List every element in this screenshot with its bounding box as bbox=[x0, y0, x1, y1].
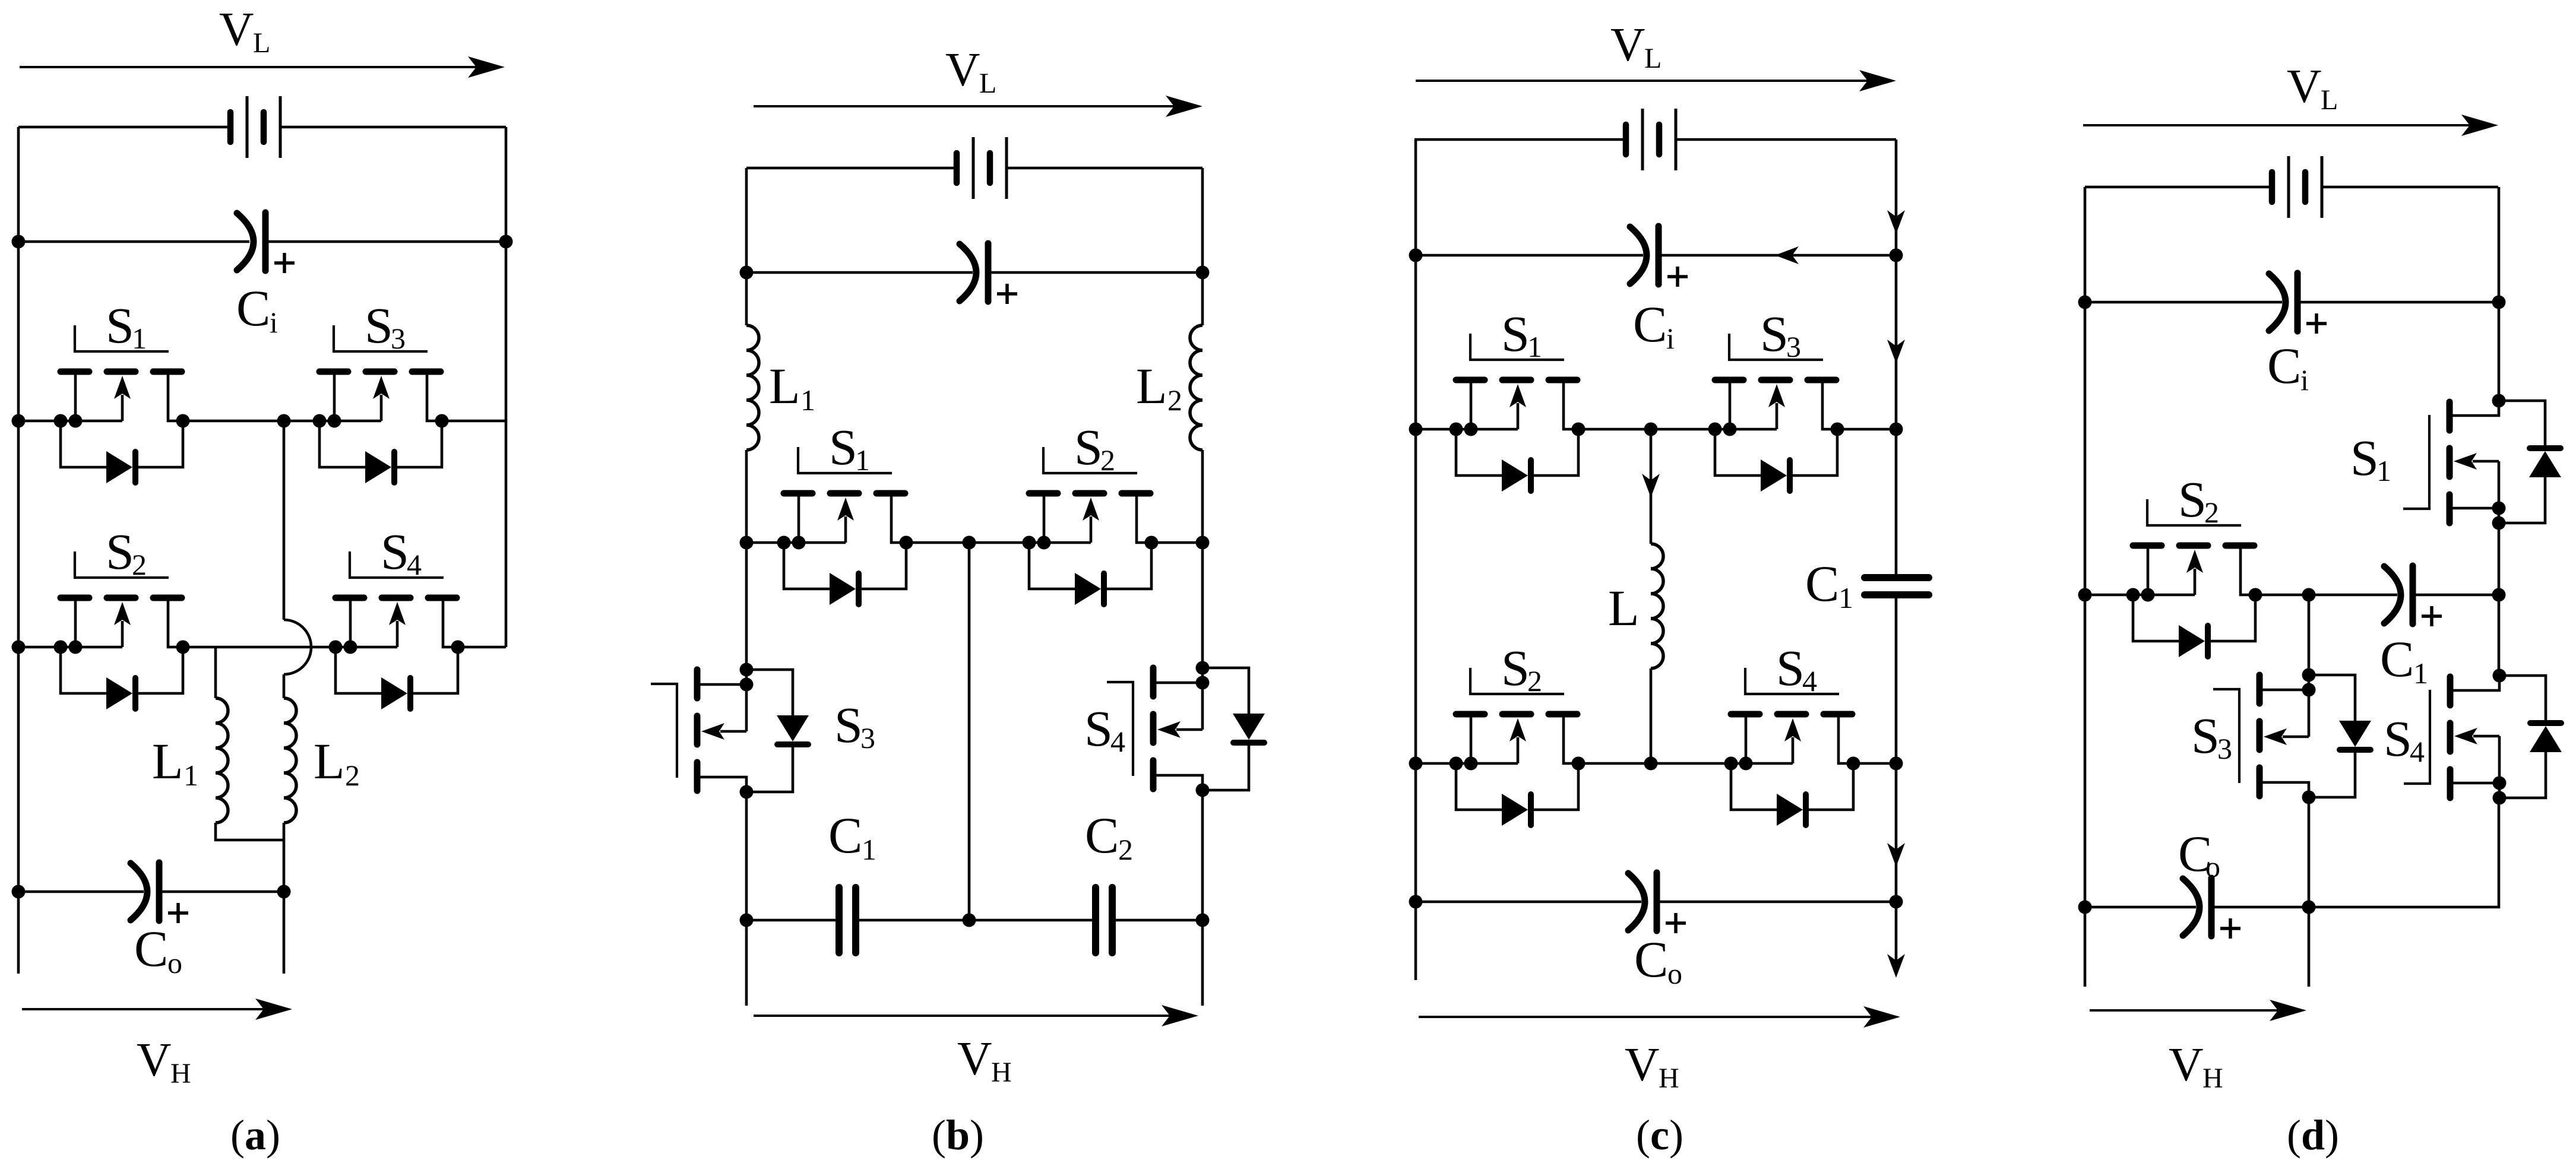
wire row2 (a) bbox=[18, 646, 506, 649]
transistor S3 (c) bbox=[1708, 334, 1844, 492]
label VL (c) bbox=[1610, 18, 1662, 74]
transistor S1 (a) bbox=[54, 325, 190, 483]
node (b) row mid bbox=[963, 536, 976, 550]
inductor L (c) bbox=[1651, 429, 1663, 763]
arrowhead rail (c) 2 bbox=[1887, 340, 1905, 363]
node (c) Co right bbox=[1890, 895, 1903, 909]
svg-text:S: S bbox=[2191, 707, 2220, 764]
node (c) row2 mid bbox=[1644, 757, 1658, 771]
arrowhead rail (c) 3 bbox=[1887, 843, 1905, 867]
node (d) Ci right bbox=[2492, 296, 2506, 309]
inductor L1 (b) bbox=[746, 325, 759, 543]
wire right rail mid (c) bbox=[1895, 595, 1898, 902]
svg-text:S: S bbox=[1084, 700, 1113, 757]
wire S3 to bottom (d) bbox=[2308, 797, 2311, 987]
transistor S2 (b) bbox=[1023, 447, 1159, 605]
node (c) row2 right bbox=[1890, 757, 1903, 771]
label L1 (b) bbox=[769, 357, 815, 417]
transistor S1 (d) bbox=[2403, 394, 2561, 530]
arrow VH (d) bbox=[2090, 1000, 2306, 1021]
transistor S4 (b) bbox=[1107, 661, 1265, 797]
svg-text:2: 2 bbox=[345, 759, 360, 792]
svg-text:i: i bbox=[270, 306, 278, 339]
svg-text:3: 3 bbox=[1786, 330, 1801, 363]
svg-text:C: C bbox=[1085, 807, 1119, 864]
label S1 (b) bbox=[829, 419, 870, 477]
svg-text:C: C bbox=[134, 920, 168, 977]
node (a) row1 left bbox=[12, 414, 26, 428]
wire row1 (c) bbox=[1416, 428, 1896, 431]
wire bottom row (b) bbox=[746, 919, 1202, 922]
svg-text:2: 2 bbox=[1118, 833, 1133, 866]
inductor L2 (a) bbox=[284, 698, 296, 892]
wire right rail mid (b) bbox=[1201, 543, 1204, 668]
wire right rail low (b) bbox=[1201, 790, 1204, 1006]
label VL (b) bbox=[945, 43, 996, 99]
svg-text:2: 2 bbox=[2204, 496, 2219, 529]
svg-text:S: S bbox=[1760, 305, 1789, 362]
node (d) Co mid bbox=[2302, 901, 2316, 914]
svg-text:L: L bbox=[769, 357, 800, 414]
label S3 (c) bbox=[1760, 305, 1801, 363]
node (b) bottom left bbox=[740, 914, 754, 927]
label Co (a) bbox=[134, 920, 182, 980]
svg-text:L: L bbox=[314, 733, 345, 790]
svg-text:C: C bbox=[828, 807, 862, 864]
arrowhead L branch (c) bbox=[1642, 474, 1660, 497]
svg-text:(a): (a) bbox=[230, 1111, 280, 1159]
svg-text:L: L bbox=[253, 27, 270, 59]
capacitor Ci (d) bbox=[2085, 273, 2499, 334]
label S3 (d) bbox=[2191, 707, 2232, 765]
node (a) Ci left bbox=[12, 235, 26, 249]
wire right rail mid (d) bbox=[2498, 523, 2501, 676]
svg-text:2: 2 bbox=[1100, 443, 1115, 477]
wire left rail low (b) bbox=[745, 791, 748, 1006]
label VL (a) bbox=[219, 2, 270, 59]
svg-text:S: S bbox=[834, 696, 863, 753]
svg-text:C: C bbox=[2267, 337, 2301, 394]
label S2 (d) bbox=[2178, 471, 2219, 529]
label L1 (a) bbox=[152, 733, 198, 792]
svg-text:1: 1 bbox=[2376, 454, 2391, 487]
arrow VH (c) bbox=[1419, 1006, 1900, 1028]
svg-text:o: o bbox=[167, 946, 182, 980]
label VH (c) bbox=[1625, 1038, 1679, 1094]
svg-text:L: L bbox=[152, 733, 183, 790]
node (b) bottom right bbox=[1196, 914, 1210, 927]
node (d) row mid bbox=[2302, 588, 2316, 602]
svg-text:S: S bbox=[2384, 710, 2412, 767]
node (a) Co left bbox=[12, 885, 26, 899]
wire left rail (a) bbox=[17, 127, 20, 974]
svg-text:2: 2 bbox=[1527, 664, 1542, 698]
node (c) row1 right bbox=[1890, 423, 1903, 436]
svg-text:S: S bbox=[2178, 471, 2207, 528]
battery VL source (d) bbox=[2085, 156, 2498, 218]
capacitor Ci (a) bbox=[18, 213, 506, 273]
label S4 (d) bbox=[2384, 710, 2425, 768]
label S4 (b) bbox=[1084, 700, 1125, 758]
svg-text:C: C bbox=[236, 280, 270, 337]
svg-text:(c): (c) bbox=[1636, 1111, 1683, 1159]
wire below Co (a) bbox=[283, 892, 286, 974]
svg-text:S: S bbox=[381, 523, 409, 580]
svg-text:V: V bbox=[1625, 1038, 1660, 1091]
svg-text:1: 1 bbox=[132, 322, 147, 355]
wire right rail top (d) bbox=[2498, 187, 2501, 401]
capacitor Co (a) bbox=[18, 863, 284, 923]
svg-text:S: S bbox=[365, 297, 393, 354]
svg-text:i: i bbox=[2300, 363, 2309, 397]
arrow VL (b) bbox=[754, 96, 1202, 117]
arrow VH (b) bbox=[754, 1005, 1198, 1026]
node (b) cap right bbox=[1196, 266, 1210, 280]
arrow VL (a) bbox=[20, 56, 505, 78]
label Ci (c) bbox=[1633, 296, 1675, 355]
label S1 (a) bbox=[106, 297, 147, 355]
inductor L1 (a) bbox=[216, 647, 284, 840]
label S4 (a) bbox=[381, 523, 422, 581]
label S2 (a) bbox=[106, 523, 147, 581]
svg-text:L: L bbox=[1136, 357, 1167, 414]
label VH (d) bbox=[2169, 1038, 2223, 1094]
svg-text:C: C bbox=[1633, 296, 1667, 353]
svg-text:H: H bbox=[1659, 1063, 1679, 1094]
label L2 (b) bbox=[1136, 357, 1182, 417]
label S3 (a) bbox=[365, 297, 406, 355]
label S2 (b) bbox=[1074, 419, 1115, 477]
svg-text:C: C bbox=[1634, 931, 1668, 988]
svg-text:H: H bbox=[170, 1058, 191, 1089]
node (a) Ci right bbox=[499, 235, 513, 249]
svg-text:4: 4 bbox=[407, 548, 422, 581]
arrow VL (c) bbox=[1416, 70, 1896, 91]
node (b) cap left bbox=[740, 266, 754, 280]
label Co (c) bbox=[1634, 931, 1682, 990]
transistor S4 (d) bbox=[2404, 669, 2562, 805]
svg-text:V: V bbox=[2169, 1038, 2204, 1091]
svg-text:2: 2 bbox=[1167, 383, 1182, 417]
label S3 (b) bbox=[834, 696, 875, 755]
label L2 (a) bbox=[314, 733, 360, 792]
capacitor Co (d) bbox=[2085, 878, 2309, 939]
wire right rail top (b) bbox=[1201, 168, 1204, 325]
svg-text:V: V bbox=[1610, 18, 1645, 71]
label S4 (c) bbox=[1776, 639, 1817, 698]
svg-text:S: S bbox=[1776, 639, 1805, 696]
label C1 (c) bbox=[1805, 555, 1853, 614]
svg-text:(b): (b) bbox=[932, 1111, 984, 1159]
svg-text:S: S bbox=[2350, 429, 2379, 486]
node (b) row right bbox=[1196, 536, 1210, 550]
wire S3 branch (d) bbox=[2308, 595, 2311, 675]
node (c) row1 left bbox=[1409, 423, 1423, 436]
svg-text:S: S bbox=[1501, 305, 1530, 362]
svg-text:3: 3 bbox=[860, 721, 875, 755]
node (c) row2 left bbox=[1409, 757, 1423, 771]
node (b) row left bbox=[740, 536, 754, 550]
svg-text:S: S bbox=[106, 523, 134, 580]
wire left rail top (b) bbox=[745, 168, 748, 325]
transistor S2 (d) bbox=[2126, 499, 2262, 657]
label Ci (d) bbox=[2267, 337, 2309, 397]
label Ci (a) bbox=[236, 280, 278, 339]
svg-text:1: 1 bbox=[800, 383, 815, 417]
svg-text:4: 4 bbox=[2410, 735, 2425, 768]
label Co (d) bbox=[2178, 825, 2220, 883]
svg-text:H: H bbox=[991, 1057, 1012, 1088]
node (c) Ci left bbox=[1409, 249, 1423, 262]
label S1 (d) bbox=[2350, 429, 2391, 487]
arrowhead rail (c) 1 bbox=[1887, 210, 1905, 234]
capacitor C2 (b) bbox=[1096, 887, 1112, 953]
transistor S4 (a) bbox=[329, 551, 465, 709]
svg-text:1: 1 bbox=[2413, 657, 2428, 690]
label VH (b) bbox=[957, 1032, 1012, 1088]
node (c) Co left bbox=[1409, 895, 1423, 909]
svg-text:V: V bbox=[957, 1032, 992, 1085]
node (a) row2 left bbox=[12, 641, 26, 654]
capacitor Co (c) bbox=[1416, 873, 1896, 933]
wire right rail (a) bbox=[505, 127, 508, 647]
svg-text:3: 3 bbox=[2217, 732, 2232, 765]
arrowhead rail (c) 4 bbox=[1887, 954, 1905, 978]
wire left rail (c) bbox=[1414, 140, 1417, 980]
svg-text:S: S bbox=[1501, 639, 1530, 696]
svg-text:S: S bbox=[106, 297, 134, 354]
node (d) Ci left bbox=[2078, 296, 2092, 309]
wire mid row (b) bbox=[746, 541, 1202, 544]
node (c) Ci right bbox=[1890, 249, 1903, 262]
transistor S3 (a) bbox=[313, 325, 449, 483]
node (a) row1 mid bbox=[277, 414, 291, 428]
svg-text:1: 1 bbox=[183, 759, 198, 792]
arrowhead Ci wire (c) bbox=[1775, 246, 1799, 264]
wire left rail mid (b) bbox=[745, 543, 748, 670]
svg-text:4: 4 bbox=[1802, 664, 1817, 698]
battery VL source (a) bbox=[18, 96, 506, 158]
wire right rail bottom (c) bbox=[1895, 902, 1898, 974]
transistor S1 (b) bbox=[777, 447, 913, 605]
svg-text:1: 1 bbox=[1838, 581, 1853, 614]
svg-text:o: o bbox=[2205, 850, 2220, 883]
label C1 (b) bbox=[828, 807, 876, 866]
wire right rail bottom corner (d) bbox=[2309, 798, 2499, 907]
capacitor input (b) bbox=[746, 243, 1202, 304]
wire mid vertical (b) bbox=[968, 543, 971, 920]
svg-text:3: 3 bbox=[391, 322, 406, 355]
svg-text:V: V bbox=[2287, 59, 2322, 113]
wire row (d) bbox=[2085, 594, 2499, 597]
svg-text:V: V bbox=[219, 2, 254, 56]
svg-text:i: i bbox=[1666, 322, 1675, 355]
svg-text:L: L bbox=[1644, 43, 1662, 74]
battery VL source (b) bbox=[746, 137, 1202, 199]
svg-text:2: 2 bbox=[132, 548, 147, 581]
wire row2 (c) bbox=[1416, 762, 1896, 765]
svg-text:1: 1 bbox=[1527, 330, 1542, 363]
node (d) row right bbox=[2492, 588, 2506, 602]
svg-text:C: C bbox=[1805, 555, 1839, 612]
node (d) row left bbox=[2078, 588, 2092, 602]
transistor S2 (c) bbox=[1450, 668, 1586, 826]
wire right rail upper (c) bbox=[1895, 140, 1898, 578]
svg-text:4: 4 bbox=[1110, 725, 1125, 758]
node (c) row1 mid bbox=[1644, 423, 1658, 436]
svg-text:V: V bbox=[137, 1033, 172, 1086]
transistor S3 (d) bbox=[2213, 668, 2371, 804]
label S2 (c) bbox=[1501, 639, 1542, 698]
label VL (d) bbox=[2287, 59, 2338, 116]
svg-text:1: 1 bbox=[855, 443, 870, 477]
inductor L2 (b) bbox=[1190, 325, 1202, 543]
svg-text:S: S bbox=[1074, 419, 1103, 476]
wire left rail (d) bbox=[2084, 187, 2087, 987]
wire row1 (a) bbox=[18, 420, 506, 423]
svg-text:H: H bbox=[2202, 1063, 2223, 1094]
wire mid branch with crossover hop (a) bbox=[283, 421, 286, 620]
node (b) bottom mid bbox=[963, 914, 976, 927]
svg-text:L: L bbox=[1608, 579, 1640, 636]
transistor S1 (c) bbox=[1450, 334, 1586, 492]
label C1 (d) bbox=[2380, 630, 2428, 690]
label C2 (b) bbox=[1085, 807, 1133, 866]
svg-text:L: L bbox=[979, 68, 996, 99]
svg-text:L: L bbox=[2321, 84, 2338, 116]
svg-text:S: S bbox=[829, 419, 857, 476]
transistor S3 (b) bbox=[651, 663, 809, 799]
arrow VL (d) bbox=[2083, 115, 2498, 136]
svg-text:C: C bbox=[2380, 630, 2414, 687]
label VH (a) bbox=[137, 1033, 191, 1089]
battery VL source (c) bbox=[1414, 109, 1896, 170]
svg-text:o: o bbox=[1667, 957, 1682, 990]
capacitor C1 (c) bbox=[1865, 578, 1929, 595]
capacitor C1 (d) bbox=[2384, 566, 2442, 626]
svg-text:(d): (d) bbox=[2287, 1111, 2339, 1159]
capacitor Ci (c) bbox=[1416, 226, 1896, 287]
node (a) Co right bbox=[277, 885, 291, 899]
capacitor C1 (b) bbox=[839, 887, 856, 953]
svg-text:1: 1 bbox=[862, 833, 876, 866]
transistor S4 (c) bbox=[1724, 668, 1860, 826]
svg-text:V: V bbox=[945, 43, 980, 96]
arrow VH (a) bbox=[22, 999, 292, 1020]
node (d) Co left bbox=[2078, 901, 2092, 914]
transistor S2 (a) bbox=[54, 551, 190, 709]
label S1 (c) bbox=[1501, 305, 1542, 363]
